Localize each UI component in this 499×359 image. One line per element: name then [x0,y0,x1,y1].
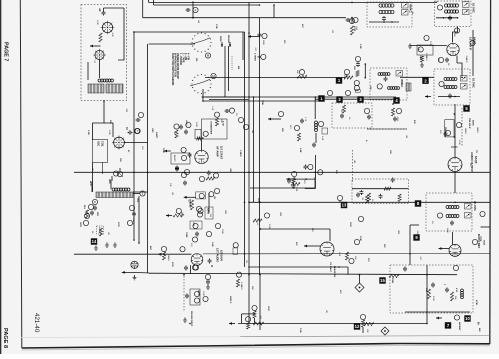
RN resistor 2 [450,288,457,301]
wire switch column b [228,46,230,91]
RN coil [461,289,464,299]
ref circle cb [345,90,350,95]
capacitor C6 [92,199,97,210]
T2 trimmer 1 [402,3,409,9]
trimmer osc [117,168,123,177]
T4 ref circle [439,81,444,86]
tone cluster 3 [214,188,220,228]
svg-text:10.7MC: 10.7MC [472,3,476,13]
T2 base line [369,21,399,23]
callout square 2 [336,96,342,102]
tube V4 1st IF amp [447,43,459,55]
de-emphasis dashed box [352,179,409,203]
tone cluster [176,176,215,213]
disc box [322,128,328,134]
bottom page border [22,344,490,349]
wire T3 to V4 [453,27,458,43]
diamond test point M16 [355,274,364,292]
V9 grid arrow [304,245,320,248]
T3 trimmer 1 [463,2,470,8]
V4 grid cap circle [424,35,429,40]
callout square 1a [336,77,342,83]
svg-text:3.3M: 3.3M [359,44,361,49]
svg-text:CONDENSER: CONDENSER [209,121,211,135]
callout square 3 [357,96,363,102]
ref circle ca [327,90,332,95]
bus A circles [238,117,248,129]
ref circle ao b [444,127,451,136]
svg-text:270K: 270K [202,291,204,296]
svg-text:47K: 47K [190,243,192,247]
V4 grid components [417,45,433,67]
svg-text:YEL: YEL [136,198,138,203]
callout square 4 [393,97,399,103]
function switch note [171,53,190,86]
de-emphasis bus wire [352,188,409,190]
trap coil block [406,83,411,91]
wire rail y323 [238,323,427,325]
svg-text:100K: 100K [349,222,351,227]
disc ref circle [318,121,323,126]
wire switch out [205,35,260,99]
T3 cap [448,16,452,21]
resistor R4 [99,228,102,236]
ground lug 1 [94,246,98,251]
V5 arrows [164,150,171,153]
wire bus x134 [133,32,135,240]
component value labels [85,20,478,333]
resistor R30 [389,274,399,283]
grid box ao [445,120,454,137]
ground lug 2 [105,243,109,248]
V4 label [469,37,477,50]
wire tuner interconnect [104,8,125,60]
page left edge trim line [0,0,2,354]
svg-text:27K: 27K [367,258,369,262]
RN bottom line [405,311,470,313]
tube V2 osc socket [93,49,105,61]
svg-text:456KC: 456KC [400,79,404,87]
cap tick ao [451,113,458,147]
loop antenna coil [112,188,130,191]
svg-text:6.8K: 6.8K [299,148,301,153]
svg-text:120K: 120K [343,74,345,79]
bottom parts a [252,305,257,323]
svg-text:1MEG: 1MEG [167,255,169,261]
svg-text:13: 13 [342,203,347,208]
volume control [166,214,202,229]
svg-text:33K: 33K [109,120,111,124]
svg-text:VOL: VOL [192,222,194,227]
tuner transformer core [88,84,104,93]
wire x410 [410,225,419,265]
T3 trimmer 2 [463,9,470,15]
svg-text:15K: 15K [417,47,419,51]
svg-text:2ND FM IF: 2ND FM IF [468,118,470,129]
svg-text:TONE: TONE [185,232,187,238]
svg-text:6.8K: 6.8K [295,187,297,192]
svg-text:3.3MEG: 3.3MEG [240,282,242,290]
junction dots bus [133,239,140,244]
svg-text:47K: 47K [301,24,304,28]
svg-text:AM: AM [237,66,240,69]
svg-text:PHASE INV: PHASE INV [333,266,336,278]
svg-text:1 MEG: 1 MEG [239,150,241,157]
T5 ref circle [377,84,382,89]
T4 arrow [425,95,431,98]
svg-text:TAPE: TAPE [219,36,222,42]
antenna lead blue [89,181,92,192]
wire disc [314,96,316,143]
T4 trimmer 1 [461,76,468,82]
svg-text:RED: RED [108,179,110,184]
V7 label [216,248,224,262]
wire b-minus [240,336,490,337]
svg-text:100K: 100K [261,100,263,105]
phono arrow [227,35,231,47]
V5 grid cluster 2 [174,124,183,138]
disc parts [294,119,304,142]
T2 primary coil [379,4,394,7]
wire rail y202 [249,201,490,203]
svg-text:39K: 39K [383,244,385,248]
dashed link osc [102,163,104,175]
antenna lead red [108,179,111,189]
osc label [110,176,113,181]
tuner transformer core 2 [106,84,123,93]
RN out circle [454,315,459,320]
callout square 12 [354,323,360,329]
RT trimmer 2 [465,213,472,219]
det box [195,109,230,140]
callout square 8 [415,200,421,206]
disc arrow [268,118,281,121]
filter box dashed [332,103,372,128]
disc ref c [278,111,283,116]
component on bus 2 [127,205,136,225]
V6 label [470,152,478,173]
resistor R31 [253,322,264,325]
svg-text:56K: 56K [296,70,298,74]
callout square 7 [445,322,451,328]
svg-text:10: 10 [465,316,470,321]
callout square 14 [91,238,97,244]
callout square 13 [341,202,347,208]
svg-text:2MEG: 2MEG [476,127,478,133]
V5 label [216,146,224,160]
page 8 right border [489,0,492,344]
svg-text:PHONO: PHONO [227,35,229,43]
T2 trimmer 2 [402,10,409,16]
svg-text:COIL: COIL [101,141,104,147]
resistor R10 [215,118,218,126]
callout square 9 [413,234,419,240]
wire bus C x253.5 [253,97,255,202]
svg-text:1ST AUDIO: 1ST AUDIO [216,248,220,262]
capacitor C7 [90,211,94,216]
phono dashed link [183,276,185,311]
terminal bus d [254,53,266,61]
resistor R32 [364,322,374,325]
svg-text:SYM: SYM [359,236,361,241]
tone cluster 2 [196,206,213,219]
svg-text:BLU: BLU [83,205,85,210]
tube V5 AF amp [195,150,208,163]
RN arrow [436,317,442,320]
wire V4 plate down [457,56,462,77]
ref circle above [344,69,349,77]
svg-text:JACK: JACK [197,290,200,296]
svg-text:12: 12 [355,324,360,329]
svg-text:.0015: .0015 [396,116,398,122]
svg-text:470K: 470K [458,140,460,145]
wire switch column a [224,46,226,97]
svg-text:2.2K: 2.2K [211,106,213,111]
svg-text:SHIELD: SHIELD [229,296,231,304]
bottom parts b [360,314,365,333]
T3 primary coil [445,4,459,7]
svg-text:470K: 470K [171,262,174,267]
wire y99 callouts [315,98,396,100]
tube V8 det [131,261,138,268]
svg-text:RED: RED [96,212,98,217]
svg-text:680K: 680K [446,228,448,233]
svg-text:FUNCTION SWITCH SHOWN: FUNCTION SWITCH SHOWN [171,53,174,86]
loop label box [97,226,104,234]
svg-text:1M: 1M [213,196,215,199]
resistor R6b [344,76,353,79]
RN cap 1 [431,283,435,288]
svg-text:5%: 5% [431,221,433,224]
fold line artifact [21,336,240,339]
wire x455 drop [454,104,456,157]
svg-text:1 - PHONO: 1 - PHONO [179,53,182,65]
wire V6 to RT box [454,172,456,194]
svg-text:IN PHONO POSITION: IN PHONO POSITION [174,53,177,77]
svg-text:12K: 12K [389,150,391,154]
wire drop x348 [347,267,349,275]
T5 primary coil [378,73,390,76]
resistor R20 [253,213,270,222]
svg-text:OSC: OSC [97,141,100,146]
V4 cathode parts [438,57,449,62]
T5 cap [384,77,388,82]
terminal on bus [134,128,139,133]
ref circle det a [214,112,219,117]
IF transformer T5 dashed box [370,68,407,100]
electro box [171,153,190,164]
svg-text:.02MFD: .02MFD [132,217,134,225]
wire rail y172 [74,171,490,173]
ref circle T3 wire [454,28,459,33]
RN label [458,322,461,331]
svg-text:220K: 220K [257,198,259,203]
svg-text:470K: 470K [96,20,98,25]
svg-text:1/2 12AX7: 1/2 12AX7 [220,146,224,160]
wire top rail 1b [154,0,261,5]
V5 cathode parts [184,169,218,178]
svg-text:AM: AM [478,328,481,332]
svg-text:BLU: BLU [89,181,91,186]
ref circle y219 [358,216,363,221]
svg-text:560K: 560K [267,306,269,311]
svg-text:47K: 47K [141,146,143,150]
T4 primary coil [444,78,457,81]
wire rail y77 [205,77,345,79]
RT cap [450,221,454,226]
bottom border shadow [22,346,490,351]
wire tuner to coil [88,60,100,80]
wire sec yellow [136,196,139,243]
svg-text:VIEWED FROM FRONT: VIEWED FROM FRONT [176,53,179,80]
T4 label [472,78,476,88]
wire osc bus x147 [133,44,195,192]
tape head arrow [219,36,223,47]
capacitor C2 tuner top [98,8,106,16]
V10 label [472,234,481,249]
capacitor C10 bus [258,33,268,39]
cluster r4 [292,164,323,176]
rail y274 parts [184,243,242,290]
tuner dashed enclosure [81,5,127,101]
wire top rail right bend [436,1,438,2]
T5 label [400,79,404,87]
wire top rail 2 [143,0,346,18]
label PAGE 7 [3,42,9,61]
svg-text:PHONO INPUT: PHONO INPUT [190,311,192,327]
capacitor C5 conv [125,127,140,135]
capacitor C8 on bus [136,112,144,122]
phono ref [203,296,208,301]
page 7 left border [20,0,22,348]
label 421-40 [33,313,40,333]
ref circle r b [349,18,356,35]
T5 secondary coil [388,87,400,90]
V9 right parts [345,236,361,264]
box bottom y188 [250,177,315,188]
svg-text:.02MFD: .02MFD [465,55,467,63]
svg-text:4.7K: 4.7K [85,210,87,215]
T3 base line [436,17,458,19]
wire x352 drop [351,17,353,24]
phono jack box [190,289,200,305]
resistor R3 [85,204,93,218]
svg-text:22K: 22K [369,86,371,90]
wire x203 drop [202,89,204,101]
tuner coupling coil [98,79,114,82]
svg-text:10K: 10K [251,286,253,290]
arrow tuner AGC [90,45,101,48]
wire drop x249 to box [248,2,250,33]
RT primary coil [446,206,459,209]
svg-text:8.2K: 8.2K [455,288,457,293]
tube V9 phase inv [320,242,334,256]
IF transformer T2 dashed box [367,2,412,27]
svg-text:270K: 270K [429,41,431,46]
svg-text:33K: 33K [354,256,356,260]
svg-text:15K: 15K [366,329,368,333]
callout square 1 [318,95,324,101]
svg-text:22K: 22K [281,128,283,132]
wire drop x274 [273,4,275,17]
svg-text:220K: 220K [268,224,270,229]
svg-text:6.8K: 6.8K [321,136,323,141]
capacitor C1 on top drop [186,1,199,18]
RN vwire [426,265,428,324]
diamond test point M17 [381,327,389,335]
T3 secondary coil [445,10,459,13]
wire right mid [481,226,490,228]
V8 ground [133,275,137,280]
wire rail y274 [149,265,458,275]
svg-text:2 - TAPE: 2 - TAPE [181,53,184,63]
svg-text:470K: 470K [475,300,478,305]
svg-text:390K: 390K [391,278,393,284]
wire conv plate right [125,142,148,144]
svg-text:270K: 270K [117,222,119,227]
cap r2 [175,167,179,172]
svg-text:100K: 100K [108,130,110,135]
svg-text:22K: 22K [353,66,355,70]
wire rail y97 center [202,96,397,98]
T4 cap [438,94,460,99]
IF transformer T3 dashed box [435,1,472,27]
terminal cluster [83,213,89,225]
T4 trimmer 2 [461,84,468,90]
wire x147 lower [122,192,149,274]
ref circle right border [480,211,485,216]
tube V10 ratio det [439,232,462,256]
wire rail y77 right [400,76,434,78]
wire top rail 1 [149,0,438,2]
svg-text:10K: 10K [111,33,113,37]
svg-text:1/2 6AV6: 1/2 6AV6 [220,250,224,262]
cap y188 a [287,179,300,186]
T2 secondary coil [379,10,394,13]
wire bus D x259.5 [259,18,261,275]
svg-text:500K: 500K [180,212,182,217]
T5 trimmer [396,71,403,77]
T2 label 456KC [409,4,413,13]
wire right bus [472,30,474,76]
svg-text:150K: 150K [162,148,164,153]
callout square 2A [422,78,428,84]
callout square 15 [379,277,385,283]
switch link dashed [231,56,233,70]
svg-text:2.2K: 2.2K [338,252,340,257]
tube V3 converter socket [112,136,126,150]
RN resistor 1 [425,288,431,299]
tube V1 RF amp socket [101,21,115,35]
terminal r3 [181,172,186,177]
ref circle M1 [205,53,210,58]
svg-text:14: 14 [92,239,97,244]
tone cluster 4 [192,231,211,242]
resistor R1 tuner [99,33,102,42]
wire tuner output [103,101,105,124]
svg-text:ELECT: ELECT [173,155,175,162]
svg-text:2MEG: 2MEG [464,128,466,134]
de-emphasis leg [286,155,315,189]
dashed drop x352 [352,150,354,183]
svg-text:PAGE 7: PAGE 7 [3,42,9,61]
V5 junction [202,137,204,150]
antenna transformer core [96,192,133,198]
svg-text:3 - AM: 3 - AM [184,53,187,60]
disc coil vertical [315,121,318,132]
dashed drop x462 [461,108,463,146]
svg-text:6AQ5: 6AQ5 [474,156,478,164]
